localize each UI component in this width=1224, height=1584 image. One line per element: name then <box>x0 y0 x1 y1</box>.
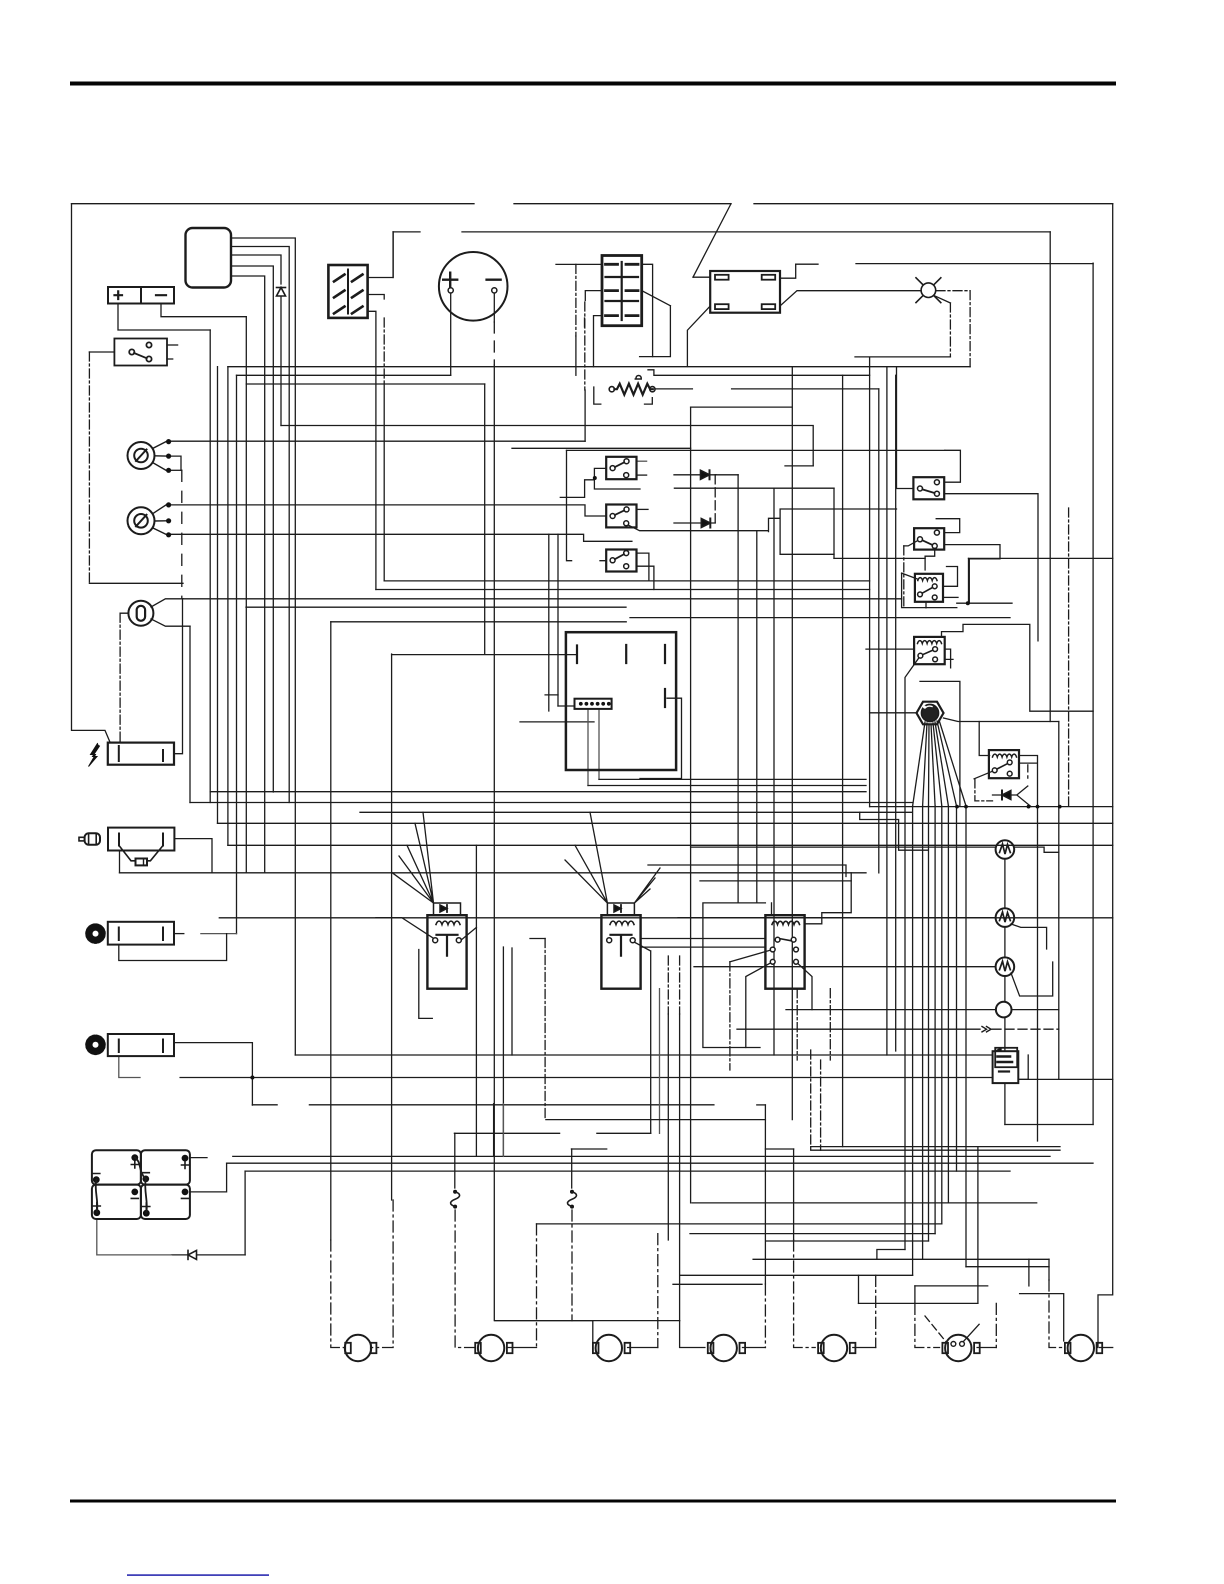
wire R1 right lead <box>944 567 957 587</box>
wire slash-connector pin2 <box>368 295 385 300</box>
wire module out3 with diode drop <box>231 255 281 284</box>
battery bank polarity marks <box>93 1161 189 1210</box>
wire solenoid2 fan left <box>565 812 607 903</box>
wire bus y1267 <box>966 1266 1049 1268</box>
wire bundle v1 <box>912 806 914 1275</box>
wire dash diode link <box>714 475 716 523</box>
wire relay K1 bottom-left staircase <box>687 306 710 367</box>
wire box B right lead1 <box>637 508 649 510</box>
wire long x870 <box>869 358 871 806</box>
wire hex fan 5 <box>933 723 942 806</box>
wire fuse1 line <box>454 1133 456 1188</box>
wire x668 <box>667 1014 669 1240</box>
wire x558 <box>557 534 559 706</box>
wire x183 drop <box>174 599 183 754</box>
wire gauge3 tail <box>1011 962 1053 996</box>
wire dash-dot lamp drop <box>949 303 951 357</box>
wire sender drop <box>119 851 121 873</box>
wire motor5 right lead <box>853 1347 876 1349</box>
wire dash x876 <box>875 1275 877 1347</box>
wire y1105 stub <box>757 1104 766 1106</box>
wire bus y1105 <box>252 1104 714 1106</box>
junction dot B <box>966 601 970 605</box>
wire box A right lead2 <box>637 474 647 476</box>
wire bundle v5 <box>941 806 943 1224</box>
relay R2 <box>914 637 945 664</box>
wire dash x996 <box>995 1303 997 1347</box>
wire x978 <box>977 1147 979 1304</box>
control module box <box>566 632 676 770</box>
wire strip left lead <box>545 695 574 706</box>
wire fuse2 lower <box>571 1210 573 1321</box>
wire slash-connector pin3 <box>368 311 376 589</box>
frame top segment 2 <box>514 203 731 205</box>
wire bus y375 right <box>648 370 870 376</box>
wire main switch feed <box>89 351 114 353</box>
wire dash-dot left drop <box>88 352 90 583</box>
wire dash x730 <box>729 962 731 1070</box>
wire relay K1 top-left lead <box>693 204 731 278</box>
motor M3 <box>593 1335 630 1361</box>
wire x393 lower dash to motor1 <box>371 1200 393 1348</box>
solenoid 1 <box>427 903 466 989</box>
wire gauge minus drop <box>493 292 495 322</box>
wire hex fan 2 <box>923 723 927 806</box>
wire relay R3 blade out <box>974 770 995 779</box>
wire y558 segment <box>834 557 925 559</box>
battery + - box <box>108 287 174 304</box>
wire tall connector left pin5 <box>594 316 603 367</box>
relay K1 (4-terminal) <box>710 271 780 313</box>
wire staircase sender-relay <box>805 873 852 924</box>
wire dash x797 <box>796 989 798 1060</box>
wire module right pin lead <box>640 698 682 778</box>
wire gen1 bus grey <box>201 933 237 935</box>
wire relay R2 left bus <box>866 648 914 650</box>
wire vertical x236 <box>236 375 238 933</box>
wire y1029 dash right <box>992 1028 1059 1030</box>
wire key1 bus y441 <box>171 440 585 442</box>
wire gauge minus long <box>494 365 593 1348</box>
wire bus y1029 <box>737 1028 980 1030</box>
wire strip drop1 <box>587 709 589 786</box>
wire bus y1133 <box>454 1132 650 1134</box>
wire vertical x217 <box>217 367 219 824</box>
wire bus y1224 <box>537 1223 942 1225</box>
wire gauge2 bus <box>678 917 996 919</box>
wire motor7 right lead <box>1100 1347 1113 1349</box>
arrow marks <box>982 1027 991 1032</box>
wire strip drop2 <box>598 709 600 780</box>
footer link underline <box>127 1574 269 1576</box>
wire bus y1079 right <box>1018 1078 1112 1080</box>
wire x503b <box>502 1104 504 1157</box>
wire gauge minus dash <box>493 322 495 365</box>
wire bundle v6 <box>947 806 949 1203</box>
wire long x843 <box>842 375 844 1146</box>
main switch S1 <box>114 339 167 366</box>
wire bus y918 <box>219 917 1112 919</box>
wire x1093 <box>1092 263 1094 1124</box>
wire x968 <box>968 558 970 603</box>
wire dashed x182 <box>181 470 183 599</box>
wire vertical x210 <box>209 330 211 803</box>
wire hex fan 7 <box>937 721 957 806</box>
wire dash x536 <box>536 1224 538 1348</box>
wire module out1 <box>231 238 295 1055</box>
wire diode row1 <box>674 474 716 476</box>
wire x494b <box>493 1104 495 1157</box>
wire key2 top bus <box>171 505 606 516</box>
wire relay R1 left vertical <box>902 573 957 608</box>
wire vertical x228 <box>227 367 229 846</box>
frame left edge <box>72 204 111 743</box>
wire gauge3 bus <box>694 966 996 968</box>
wire y357 link <box>640 306 671 357</box>
wire x1059 <box>1058 722 1060 1080</box>
wire bundle v3 <box>928 806 930 1241</box>
wire box C right lead2 <box>637 566 654 589</box>
motor M2 <box>475 1335 512 1361</box>
wire dash x904 <box>903 546 905 608</box>
wire bus y488 <box>674 487 834 489</box>
motor M5 <box>818 1335 855 1361</box>
interlock relay unit <box>765 915 804 989</box>
wire solenoid1 fan <box>392 812 434 903</box>
wire resistor bracket right <box>645 398 653 405</box>
junction dot bus806 a <box>955 805 959 809</box>
right switch SW2 <box>914 528 944 549</box>
solenoid 2 <box>601 903 640 989</box>
wire y881 <box>700 880 851 882</box>
wire key1 bottom lead <box>171 469 182 471</box>
solenoid 2 diode <box>614 905 621 912</box>
wire battery minus lead <box>161 304 246 317</box>
generator 1 <box>108 922 174 945</box>
wire hex right grey <box>944 718 1059 722</box>
relay R1 <box>915 574 943 602</box>
wire motor6 left lead <box>915 1303 940 1347</box>
wire y558 right <box>969 557 1113 559</box>
wire x392 lower <box>391 654 393 1200</box>
wire bus y1163 <box>227 1162 1093 1164</box>
wire sw2 right staircase <box>936 519 960 533</box>
generator 2 <box>108 1034 174 1056</box>
wire relay unit bottom diagonals <box>746 962 812 1048</box>
wire motor4 left lead <box>680 1321 705 1348</box>
wire resistor bracket left <box>594 387 601 404</box>
wire x331 lower dash <box>331 1240 345 1348</box>
wire y1249 link <box>877 1250 905 1260</box>
diode D5 <box>701 519 710 528</box>
wire y938 stub <box>530 938 545 940</box>
wire diode1 right corner <box>716 474 738 476</box>
wire bus y873 <box>120 872 867 874</box>
wire long x756 <box>756 532 758 903</box>
wire sw1 left vertical <box>897 367 914 489</box>
right switch SW1 <box>913 477 944 499</box>
wire x765 dash <box>764 1284 766 1348</box>
wire R3 left feed <box>979 722 989 756</box>
wire module out4 <box>231 266 273 792</box>
wire gauge plus drop <box>450 292 452 375</box>
wire fan aux <box>920 681 960 806</box>
wire gen1 bottom loop <box>119 934 227 961</box>
wire bus y806 right <box>870 806 1113 808</box>
wire bus y785 <box>588 785 866 787</box>
wire x915 upper <box>914 1286 916 1304</box>
wire R1 bottom stub <box>925 602 927 608</box>
wire long x774 <box>773 488 775 1055</box>
wire bus y384 <box>246 383 484 385</box>
wire dash pin2 drop <box>383 318 385 384</box>
wire x1029 link <box>1028 1259 1030 1286</box>
wire hex fan 4 <box>931 724 935 806</box>
wire tall connector left pin1 <box>556 263 602 265</box>
gear icon 2 <box>87 1037 103 1053</box>
wire bus y792 <box>210 791 866 793</box>
junction dot bus806 d <box>1036 805 1040 809</box>
wire solenoid2 drop x651 <box>634 942 651 1133</box>
wire bus y590 <box>376 589 870 591</box>
wire dash-dot lamp bracket <box>936 291 970 367</box>
wire motor5 left lead <box>793 1149 795 1240</box>
bottom rule <box>70 1500 1116 1503</box>
key switch K1 <box>128 439 172 473</box>
wire solenoid1 right lead <box>459 927 477 942</box>
diode D4 <box>701 470 710 479</box>
wire x331 motor1 line <box>330 622 332 1240</box>
motor M7 <box>1065 1335 1102 1361</box>
frame top segment 3 <box>754 203 1113 205</box>
wire dash x545 <box>544 939 546 1120</box>
wire x485 <box>484 384 486 654</box>
wire sw2 blade out <box>904 539 920 546</box>
wire long x792 <box>791 367 793 1120</box>
wire x859 <box>858 1275 860 1303</box>
spark lightning bolt <box>89 744 100 767</box>
wire relay R1 left diagonal <box>902 573 918 579</box>
wire bus y263 <box>796 263 1093 266</box>
wire x834 drop <box>833 488 835 558</box>
wire bus y232 <box>393 231 1050 233</box>
wire hex fan 8 <box>939 720 966 806</box>
motor M4 <box>708 1335 745 1361</box>
wire x1050 <box>1049 232 1051 722</box>
wire gauge4 bus <box>786 1009 996 1011</box>
slash connector J1 <box>328 265 367 318</box>
wire solenoid1 left lead <box>376 918 433 938</box>
wire R1 lower lead <box>944 596 958 598</box>
wire staircase right a <box>860 812 928 850</box>
wire long x879 <box>878 389 880 873</box>
frame top segment 1 <box>72 203 475 205</box>
circuit breaker <box>993 1048 1019 1083</box>
gauge circle 3 <box>996 957 1015 976</box>
wire main switch out2 <box>167 358 173 360</box>
wire bus y581 <box>384 580 869 582</box>
wire dash x658 <box>657 1234 659 1348</box>
wire x503 <box>502 947 504 1156</box>
wire bus y845 <box>228 844 1113 846</box>
wire hex fan 3 <box>928 724 931 806</box>
wire bus y448 <box>512 447 691 449</box>
wire dash x821 <box>820 1060 822 1150</box>
wire bus y812 <box>360 811 912 813</box>
wire vertical x246 <box>245 317 247 873</box>
wire box B right hook staircase <box>628 509 897 554</box>
wire gauge4 right <box>1012 1009 1059 1011</box>
wire dash x811 <box>810 1050 812 1150</box>
wire solenoid1 bracket <box>419 950 433 1019</box>
diode D3 <box>1002 791 1011 800</box>
switch box C <box>606 550 636 572</box>
wire x585 riser <box>584 390 586 441</box>
wire bus y1203 <box>692 1202 1037 1204</box>
wire battery bank top lead <box>190 1157 207 1159</box>
wire R2 right leads <box>945 649 953 668</box>
plain circle port <box>996 1002 1012 1018</box>
wire bus y1303 <box>859 1302 978 1304</box>
wire hex fan 1 <box>913 722 925 806</box>
wire sw1 out right <box>944 494 1038 641</box>
wire bus y607 <box>246 606 626 608</box>
wire staircase right b <box>648 865 846 877</box>
wire x384 lower <box>383 384 385 581</box>
wire module out5 <box>231 276 265 873</box>
wire x765 <box>764 1105 766 1284</box>
wire bus y450 <box>567 449 945 451</box>
wire y583 <box>89 582 183 584</box>
wire resistor lead right <box>655 388 879 390</box>
wire bank bottom link <box>97 1219 172 1255</box>
wire sender right lead <box>174 839 212 873</box>
wire bus y1171 <box>245 1170 1010 1172</box>
wire gauge2 tail <box>1011 924 1047 949</box>
wire gen2 bottom drop <box>119 1056 140 1077</box>
wire solenoid2 right leads <box>641 939 766 948</box>
wire fuse1 lower <box>455 1210 475 1348</box>
wire x1038 lower <box>1037 807 1039 1141</box>
wire bus y375 left <box>237 374 451 376</box>
wire y722 <box>520 721 594 723</box>
battery bank links <box>96 1158 147 1214</box>
wire x1005 gauge column <box>1004 859 1006 1125</box>
wire gauge1 bus <box>691 846 996 848</box>
wire module out2 <box>231 247 289 803</box>
wire dash-dot R3 left <box>975 779 993 801</box>
wire bus y1286 <box>915 1285 988 1287</box>
wire motor2 right lead <box>507 1347 537 1349</box>
wire key1 mid link <box>169 456 181 470</box>
wire right sw1 U-link <box>944 450 960 482</box>
wire bus y1147 <box>811 1146 1060 1148</box>
wire long x887 <box>886 367 888 1055</box>
wire bus y802 <box>190 802 912 804</box>
wire motor4 right lead <box>743 1347 766 1349</box>
wire bus y1055 <box>295 1054 992 1056</box>
wire diode D1 vertical lower <box>280 297 282 426</box>
battery bank terminals <box>93 1154 189 1216</box>
wire bus y1149 <box>571 1148 793 1150</box>
wire motor7 left dash <box>1049 1280 1062 1348</box>
wire switch stack left vertical <box>567 450 607 560</box>
solenoid 1 diode <box>440 905 447 912</box>
junction dot C <box>250 1076 254 1080</box>
wire motor6 diagonal solid <box>963 1324 979 1342</box>
wire bus y1234 <box>690 1233 935 1235</box>
module pin strip <box>575 699 612 709</box>
wire slash-connector pin1 <box>368 232 394 278</box>
module (ignition unit) <box>186 228 232 288</box>
wire relay K1 top-right lead <box>780 264 796 278</box>
hex plug connector <box>917 702 944 725</box>
wire R3 right leads <box>1019 756 1038 807</box>
wire indicator left dash-dot <box>120 613 128 742</box>
wire long x896 <box>895 375 897 1051</box>
wire gauge1 right <box>1014 847 1059 852</box>
wire motor3 right lead <box>628 1347 658 1349</box>
relay R3 <box>989 750 1019 778</box>
fuse S1 <box>451 1190 460 1209</box>
wire tall connector left pin3 <box>585 291 602 301</box>
wire module top pin bus <box>331 621 626 623</box>
wire x680 upper <box>679 1014 681 1321</box>
wire indicator bottom lead <box>151 619 190 626</box>
switch box A <box>606 457 636 479</box>
wire x190 indicator drop <box>189 626 191 802</box>
wire sw2 right lower staircase <box>944 545 1000 604</box>
wire bus y407 <box>691 406 792 408</box>
wire hex fan 6 <box>935 722 948 806</box>
diode D2 <box>188 1250 197 1259</box>
gauge circle 1 <box>996 840 1015 859</box>
wire y466 stub <box>785 465 813 467</box>
wire bundle v4 <box>934 806 936 1234</box>
wire bus y1284 middle <box>673 1283 762 1285</box>
wire bus y1275 <box>680 1274 913 1276</box>
wire long x738 <box>737 475 739 903</box>
wire main switch out1 <box>167 344 178 346</box>
wire bus y425 <box>281 426 813 466</box>
wire bus y1321 <box>495 1320 680 1322</box>
wire x476 <box>475 845 477 1156</box>
wire motor7 left lead <box>1048 1259 1050 1280</box>
wire dash x1028 <box>1027 765 1029 778</box>
wire x585 riser dash <box>584 302 586 390</box>
wire bank lead2 <box>190 1163 227 1192</box>
wire box A left lead <box>560 468 640 497</box>
wire y1294 short <box>1020 1294 1064 1341</box>
wire sw2 bottom jog <box>925 550 935 570</box>
wire bus y1156 <box>233 1155 1050 1157</box>
wire x680 upper dash <box>679 956 681 1014</box>
wire dash x577 <box>575 264 577 336</box>
wire y1124 <box>1005 1124 1093 1126</box>
wire bus y823 <box>218 822 1113 824</box>
wire solenoid2 fan right <box>634 868 660 903</box>
wire dash x585 <box>584 318 586 330</box>
key switch K2 <box>128 502 172 537</box>
wire lamp diagonal to dash line <box>934 295 951 303</box>
wire bundle v8 <box>965 806 967 1267</box>
wire x512 <box>511 948 513 1055</box>
wire bus y367 <box>228 366 970 368</box>
wire x245 diode drop <box>244 1171 246 1255</box>
wire bus y1241 <box>767 1240 929 1242</box>
wire breaker right link <box>1018 1055 1028 1079</box>
wire dash x830 <box>829 989 831 1060</box>
